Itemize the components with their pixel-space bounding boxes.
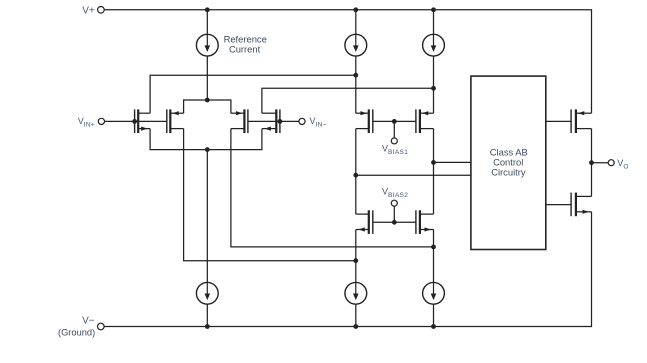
- svg-text:V−: V−: [82, 315, 95, 326]
- svg-text:VIN+: VIN+: [78, 116, 95, 129]
- svg-text:VIN−: VIN−: [310, 116, 327, 129]
- svg-text:Current: Current: [229, 43, 261, 54]
- svg-text:V+: V+: [82, 6, 95, 17]
- svg-text:VO: VO: [617, 158, 628, 171]
- svg-text:VBIAS2: VBIAS2: [382, 187, 408, 199]
- svg-text:(Ground): (Ground): [58, 327, 95, 337]
- svg-text:VBIAS1: VBIAS1: [382, 144, 408, 156]
- svg-text:Circuitry: Circuitry: [491, 166, 526, 177]
